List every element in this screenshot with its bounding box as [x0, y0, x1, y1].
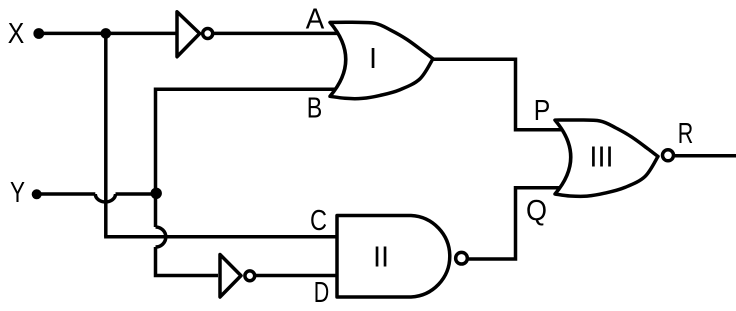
NOR gate III body	[555, 120, 658, 196]
svg-text:III: III	[589, 142, 613, 174]
svg-text:X: X	[8, 18, 25, 50]
wire C input (X to NAND gate II)	[104, 235, 340, 239]
wire Y-branch vertical lower part to inverter	[156, 247, 219, 276]
inverter U1 bubble	[203, 29, 213, 39]
junction dot on X line	[101, 28, 112, 39]
wire Y-branch vertical upper part	[154, 193, 158, 227]
terminal dot X	[33, 28, 44, 39]
NAND gate II bubble	[456, 252, 468, 264]
inverter U1 triangle	[177, 12, 200, 57]
wire X-branch vertical down to C	[104, 33, 108, 236]
junction dot on Y line	[151, 188, 162, 199]
wire Y input right segment to junction	[116, 192, 157, 196]
svg-text:B: B	[307, 93, 323, 125]
wire R output	[675, 154, 736, 158]
OR gate I body	[330, 22, 433, 98]
terminal dot Y	[32, 189, 42, 199]
svg-text:P: P	[534, 95, 551, 127]
svg-text:I: I	[369, 43, 377, 75]
NOR gate III bubble	[663, 150, 674, 161]
NAND gate II body	[337, 216, 450, 298]
inverter U2 bubble	[245, 271, 255, 281]
svg-text:C: C	[310, 205, 327, 237]
wire hop of Y-branch over C line	[156, 227, 166, 247]
wire Y input left segment	[41, 192, 95, 196]
wire P (OR gate I output to NOR gate III)	[433, 59, 561, 130]
wire Q (NAND gate II output to NOR gate III)	[468, 188, 561, 259]
wire A input (inverter out to OR gate I)	[212, 32, 341, 36]
svg-text:R: R	[678, 118, 694, 150]
wire D input (inverter out to NAND gate II)	[256, 274, 340, 278]
svg-text:A: A	[306, 4, 325, 36]
svg-text:Y: Y	[10, 177, 25, 209]
inverter U2 triangle	[220, 255, 241, 298]
wire X input	[43, 32, 177, 36]
wire hop of Y over X-branch	[95, 194, 115, 202]
svg-text:D: D	[314, 277, 330, 309]
svg-text:Q: Q	[526, 195, 547, 227]
wire B input (junction up to OR gate I)	[156, 89, 342, 193]
svg-text:II: II	[373, 242, 389, 274]
